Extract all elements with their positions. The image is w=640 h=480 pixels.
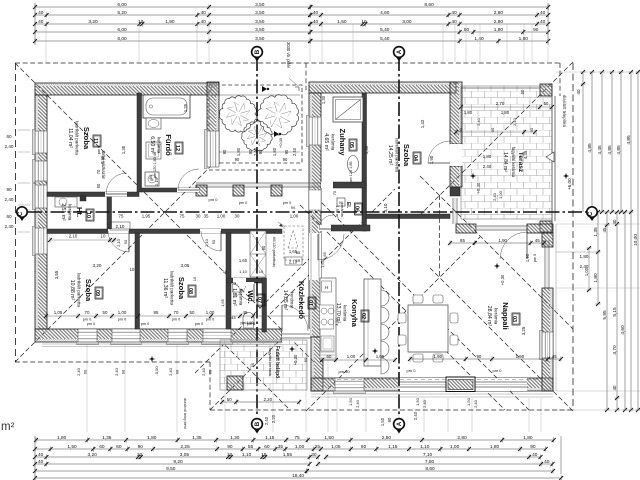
svg-text:A: A <box>396 421 403 426</box>
svg-text:1,60: 1,60 <box>239 258 248 263</box>
svg-text:90: 90 <box>123 239 128 244</box>
svg-text:1,30: 1,30 <box>121 145 126 154</box>
svg-text:1,40: 1,40 <box>474 36 484 42</box>
svg-text:90: 90 <box>361 444 367 450</box>
svg-text:85: 85 <box>460 238 465 243</box>
svg-text:28,84 m²: 28,84 m² <box>486 306 492 327</box>
svg-text:90: 90 <box>211 239 216 244</box>
svg-text:2,40: 2,40 <box>114 367 119 376</box>
svg-text:+0,30: +0,30 <box>293 354 298 365</box>
svg-text:Fürdő: Fürdő <box>164 134 173 156</box>
svg-text:3,70: 3,70 <box>612 345 618 355</box>
svg-text:+6,00: +6,00 <box>567 178 572 190</box>
svg-text:1,00: 1,00 <box>450 444 460 450</box>
svg-text:04: 04 <box>412 155 418 162</box>
svg-text:2,40: 2,40 <box>168 367 173 376</box>
svg-text:50: 50 <box>96 183 101 188</box>
svg-text:1,80: 1,80 <box>57 435 67 441</box>
svg-text:1,65: 1,65 <box>220 298 225 307</box>
svg-text:60: 60 <box>208 369 213 374</box>
svg-text:1,00: 1,00 <box>118 310 127 315</box>
svg-text:4,60: 4,60 <box>620 325 626 335</box>
svg-text:4,85: 4,85 <box>587 143 593 153</box>
svg-text:1,50: 1,50 <box>380 417 385 426</box>
svg-text:4,65 m²: 4,65 m² <box>323 133 329 151</box>
svg-text:5,95: 5,95 <box>602 310 608 320</box>
svg-text:90: 90 <box>235 157 240 162</box>
svg-text:11: 11 <box>92 138 98 144</box>
svg-text:2,50: 2,50 <box>382 435 392 441</box>
svg-text:30: 30 <box>235 214 240 219</box>
svg-text:3,55: 3,55 <box>54 270 59 279</box>
svg-text:1,35: 1,35 <box>102 435 112 441</box>
svg-text:70: 70 <box>96 169 101 174</box>
svg-text:1,15: 1,15 <box>388 444 398 450</box>
svg-text:3,20: 3,20 <box>88 19 98 25</box>
svg-text:50: 50 <box>520 89 525 94</box>
svg-text:3,10: 3,10 <box>383 203 388 212</box>
svg-text:7,10: 7,10 <box>423 452 433 458</box>
svg-text:Nappali: Nappali <box>501 302 510 329</box>
svg-text:4,35: 4,35 <box>523 150 528 159</box>
svg-text:9,50: 9,50 <box>166 466 176 472</box>
svg-text:laminált parketta: laminált parketta <box>395 138 400 172</box>
svg-text:40: 40 <box>612 219 617 224</box>
svg-text:C: C <box>588 211 594 216</box>
svg-text:40: 40 <box>544 459 550 465</box>
svg-text:pm 0: pm 0 <box>533 254 537 262</box>
svg-text:5,40: 5,40 <box>380 27 390 33</box>
svg-text:90: 90 <box>476 354 481 359</box>
svg-text:1,95: 1,95 <box>142 214 151 219</box>
svg-text:45: 45 <box>602 227 607 232</box>
svg-text:12: 12 <box>174 145 180 151</box>
svg-text:C: C <box>18 211 24 216</box>
svg-text:2,40: 2,40 <box>5 144 14 149</box>
svg-text:m²: m² <box>1 421 15 433</box>
svg-text:2,25: 2,25 <box>180 444 190 450</box>
svg-text:1,35: 1,35 <box>183 103 188 112</box>
svg-text:2,10: 2,10 <box>116 224 125 229</box>
svg-text:Szoba: Szoba <box>82 127 91 150</box>
svg-text:4,45: 4,45 <box>597 145 603 155</box>
svg-text:1,80: 1,80 <box>483 154 492 159</box>
svg-text:2,80: 2,80 <box>457 435 467 441</box>
svg-text:8,60: 8,60 <box>424 2 434 8</box>
svg-text:10: 10 <box>227 452 233 458</box>
svg-text:11,36 m²: 11,36 m² <box>162 278 168 298</box>
svg-text:5,40: 5,40 <box>380 36 390 42</box>
svg-text:03: 03 <box>511 316 517 322</box>
svg-text:kerámia: kerámia <box>331 134 336 151</box>
svg-text:10: 10 <box>259 269 264 274</box>
svg-text:pm 90: pm 90 <box>338 369 350 374</box>
svg-text:40: 40 <box>38 452 44 458</box>
svg-text:ladrikált parketta: ladrikált parketta <box>170 271 175 305</box>
svg-text:2,40: 2,40 <box>422 399 427 408</box>
svg-text:40: 40 <box>38 10 44 16</box>
svg-text:1,90: 1,90 <box>498 238 507 243</box>
svg-text:2,40: 2,40 <box>512 117 517 126</box>
svg-text:35: 35 <box>278 444 284 450</box>
svg-text:30: 30 <box>311 452 317 458</box>
svg-text:1,80: 1,80 <box>580 254 589 259</box>
svg-text:fagyálló kerámia: fagyálló kerámia <box>268 348 272 377</box>
svg-text:45: 45 <box>243 310 248 315</box>
svg-text:2,20: 2,20 <box>264 397 273 402</box>
svg-text:10,00: 10,00 <box>633 234 639 246</box>
svg-text:2,51 m²: 2,51 m² <box>60 203 66 221</box>
svg-text:50: 50 <box>227 397 232 402</box>
svg-text:3,50: 3,50 <box>255 36 265 42</box>
svg-text:75: 75 <box>294 435 300 441</box>
svg-text:2,80: 2,80 <box>494 10 504 16</box>
svg-text:11,04 m²: 11,04 m² <box>67 128 73 148</box>
svg-text:pm 0: pm 0 <box>195 322 203 326</box>
svg-text:1,80: 1,80 <box>501 110 510 115</box>
svg-text:4,60: 4,60 <box>380 10 390 16</box>
svg-text:pm 0: pm 0 <box>118 318 126 322</box>
svg-text:1,50: 1,50 <box>466 397 471 406</box>
svg-text:55: 55 <box>248 444 254 450</box>
svg-text:tbrbó gázkazán: tbrbó gázkazán <box>101 151 106 180</box>
svg-text:1,00: 1,00 <box>295 444 305 450</box>
svg-text:1,80: 1,80 <box>147 435 157 441</box>
svg-text:1,90: 1,90 <box>165 19 175 25</box>
svg-text:pm 0: pm 0 <box>83 318 91 322</box>
svg-text:1,81 m²: 1,81 m² <box>231 288 237 306</box>
svg-text:1,80: 1,80 <box>519 36 529 42</box>
svg-text:2,40: 2,40 <box>264 416 269 425</box>
svg-text:kerámia: kerámia <box>340 203 344 217</box>
svg-text:1,65: 1,65 <box>322 251 327 260</box>
svg-text:pm 0: pm 0 <box>141 322 149 326</box>
svg-text:75: 75 <box>119 214 124 219</box>
svg-text:1,00: 1,00 <box>217 214 226 219</box>
svg-text:07: 07 <box>256 297 262 303</box>
svg-text:2,40: 2,40 <box>5 197 14 202</box>
svg-text:50: 50 <box>103 310 108 315</box>
svg-text:Ht.: Ht. <box>75 207 84 217</box>
svg-text:90: 90 <box>222 149 227 154</box>
svg-text:2,40: 2,40 <box>476 117 481 126</box>
svg-text:1,05: 1,05 <box>331 444 341 450</box>
svg-text:90: 90 <box>283 157 288 162</box>
svg-text:pm 0: pm 0 <box>97 146 101 154</box>
svg-text:4,85: 4,85 <box>616 145 622 155</box>
svg-text:Konyha: Konyha <box>350 299 359 328</box>
svg-text:2,40: 2,40 <box>413 411 418 420</box>
svg-text:1,50: 1,50 <box>337 19 347 25</box>
svg-text:2,10: 2,10 <box>204 238 209 247</box>
svg-text:40: 40 <box>313 10 319 16</box>
svg-text:02: 02 <box>360 313 366 319</box>
svg-text:1,00: 1,00 <box>584 267 589 276</box>
svg-text:1,55: 1,55 <box>283 452 293 458</box>
svg-text:50: 50 <box>250 362 255 367</box>
svg-text:40: 40 <box>38 459 44 465</box>
svg-text:18,40: 18,40 <box>292 473 304 479</box>
svg-text:H: H <box>325 285 328 290</box>
svg-text:7,80: 7,80 <box>425 459 435 465</box>
svg-text:1,80: 1,80 <box>236 147 241 156</box>
svg-text:ladrikált parketta: ladrikált parketta <box>75 121 80 155</box>
svg-text:2,10: 2,10 <box>116 238 121 247</box>
svg-text:kerámia: kerámia <box>343 305 348 322</box>
svg-text:14,84 m²: 14,84 m² <box>502 152 508 172</box>
svg-text:90: 90 <box>529 127 534 132</box>
svg-text:90: 90 <box>121 369 126 374</box>
svg-text:2,40: 2,40 <box>483 164 492 169</box>
svg-text:1,10: 1,10 <box>239 269 248 274</box>
svg-text:10: 10 <box>85 212 91 218</box>
svg-text:3,50: 3,50 <box>255 10 265 16</box>
svg-text:3030 vb. pillér: 3030 vb. pillér <box>286 42 291 69</box>
svg-text:pm 120 1,60 40: pm 120 1,60 40 <box>153 152 157 178</box>
svg-text:+0,00: +0,00 <box>278 137 283 148</box>
svg-text:45: 45 <box>552 354 557 359</box>
svg-text:2,10: 2,10 <box>69 234 78 239</box>
svg-text:1,10: 1,10 <box>420 444 430 450</box>
svg-text:90: 90 <box>458 127 463 132</box>
svg-text:2,40: 2,40 <box>201 367 206 376</box>
svg-text:40: 40 <box>451 19 457 25</box>
svg-text:40: 40 <box>540 10 546 16</box>
svg-text:1,65: 1,65 <box>320 259 325 268</box>
svg-text:pm 0: pm 0 <box>283 201 291 205</box>
svg-text:2,40: 2,40 <box>473 399 478 408</box>
svg-text:35: 35 <box>204 214 209 219</box>
svg-text:3,50: 3,50 <box>255 2 265 8</box>
svg-text:1,80: 1,80 <box>494 27 504 33</box>
svg-text:El.: El. <box>345 202 351 209</box>
svg-text:90: 90 <box>6 187 12 192</box>
svg-text:1,42: 1,42 <box>420 119 425 128</box>
svg-text:Szoba: Szoba <box>177 277 186 300</box>
svg-text:1,65: 1,65 <box>289 249 298 254</box>
svg-text:50: 50 <box>190 310 195 315</box>
svg-text:1,00: 1,00 <box>498 190 503 199</box>
svg-text:1,80: 1,80 <box>593 273 599 283</box>
svg-text:2,20: 2,20 <box>271 414 276 423</box>
svg-text:kerámia: kerámia <box>239 289 244 306</box>
svg-text:40: 40 <box>540 19 546 25</box>
svg-text:14,25 m²: 14,25 m² <box>387 145 393 166</box>
svg-text:13,70 m²: 13,70 m² <box>335 303 341 324</box>
svg-text:9,20: 9,20 <box>173 459 183 465</box>
svg-text:Zuhany: Zuhany <box>338 128 347 156</box>
svg-text:90: 90 <box>258 149 263 154</box>
svg-text:75: 75 <box>332 190 337 195</box>
svg-text:3,20: 3,20 <box>88 452 98 458</box>
svg-text:2,40: 2,40 <box>492 192 497 201</box>
svg-text:60: 60 <box>99 444 105 450</box>
svg-text:70: 70 <box>174 310 179 315</box>
svg-text:3,05: 3,05 <box>181 263 190 268</box>
svg-text:70: 70 <box>85 310 90 315</box>
svg-text:60: 60 <box>327 354 332 359</box>
svg-text:2,10: 2,10 <box>289 260 298 265</box>
svg-text:pm 0: pm 0 <box>172 318 180 322</box>
svg-text:3,00: 3,00 <box>402 19 412 25</box>
svg-text:40: 40 <box>612 385 617 390</box>
svg-text:60: 60 <box>303 357 308 362</box>
svg-text:1,98 m²: 1,98 m² <box>335 206 339 220</box>
svg-text:fagyálló kerámia: fagyálló kerámia <box>511 147 516 178</box>
svg-text:30: 30 <box>196 214 201 219</box>
svg-text:1,90: 1,90 <box>525 253 530 262</box>
svg-text:1,30: 1,30 <box>364 145 369 154</box>
svg-text:50: 50 <box>464 27 470 33</box>
svg-text:+0,30: +0,30 <box>500 274 505 285</box>
svg-text:6,00: 6,00 <box>117 2 127 8</box>
svg-text:2,70: 2,70 <box>496 101 505 106</box>
svg-text:Közlekedő: Közlekedő <box>297 281 306 319</box>
svg-text:06: 06 <box>354 206 360 212</box>
svg-text:10: 10 <box>130 267 135 272</box>
svg-text:1,30: 1,30 <box>230 435 240 441</box>
svg-text:90: 90 <box>138 444 144 450</box>
svg-text:1,50: 1,50 <box>415 397 420 406</box>
svg-text:08: 08 <box>187 288 193 294</box>
svg-text:8,60: 8,60 <box>425 466 435 472</box>
svg-text:5,15: 5,15 <box>612 307 618 317</box>
svg-text:1,35: 1,35 <box>192 435 202 441</box>
svg-text:1,50: 1,50 <box>348 397 353 406</box>
svg-text:90: 90 <box>175 369 180 374</box>
svg-text:pm 120 1,85: pm 120 1,85 <box>349 161 353 182</box>
svg-text:09: 09 <box>94 290 100 296</box>
svg-text:2,40: 2,40 <box>76 367 81 376</box>
svg-text:3,20: 3,20 <box>93 263 102 268</box>
svg-text:05: 05 <box>348 142 354 148</box>
svg-text:1,80: 1,80 <box>490 444 500 450</box>
svg-text:diasitott telepítési: diasitott telepítési <box>562 95 567 127</box>
svg-text:pm 0: pm 0 <box>209 197 219 202</box>
svg-text:4,85: 4,85 <box>607 145 613 155</box>
svg-text:90: 90 <box>387 417 392 422</box>
svg-text:1,50: 1,50 <box>67 444 77 450</box>
svg-text:kerámia: kerámia <box>494 308 499 325</box>
svg-text:40: 40 <box>38 19 44 25</box>
svg-text:40: 40 <box>201 10 207 16</box>
svg-text:1,90: 1,90 <box>434 354 443 359</box>
svg-text:45: 45 <box>535 238 540 243</box>
svg-text:ladrikált parketta: ladrikált parketta <box>77 273 82 307</box>
svg-text:6,00: 6,00 <box>117 27 127 33</box>
svg-text:01: 01 <box>307 300 313 306</box>
svg-text:10: 10 <box>361 19 367 25</box>
svg-text:1,80: 1,80 <box>523 435 533 441</box>
svg-text:A: A <box>396 49 403 54</box>
svg-text:90: 90 <box>291 206 295 210</box>
svg-text:1,80: 1,80 <box>272 147 277 156</box>
svg-text:45: 45 <box>231 315 236 320</box>
svg-text:90: 90 <box>148 174 153 179</box>
svg-text:2,40: 2,40 <box>355 399 360 408</box>
svg-text:pm 0: pm 0 <box>87 322 95 326</box>
svg-text:1,05: 1,05 <box>376 354 385 359</box>
svg-text:2,10: 2,10 <box>154 177 159 186</box>
svg-text:pm 0: pm 0 <box>493 368 503 373</box>
svg-text:40: 40 <box>576 89 581 95</box>
svg-text:3,50: 3,50 <box>255 19 265 25</box>
svg-text:pm 0: pm 0 <box>239 201 247 205</box>
svg-text:10: 10 <box>223 269 228 274</box>
svg-text:pm 0: pm 0 <box>247 322 255 326</box>
svg-text:2,40: 2,40 <box>5 224 14 229</box>
svg-text:1,35: 1,35 <box>593 227 599 237</box>
svg-text:40: 40 <box>532 452 538 458</box>
svg-text:50: 50 <box>544 101 549 106</box>
svg-text:1,30: 1,30 <box>100 155 105 164</box>
svg-text:1,90: 1,90 <box>516 354 525 359</box>
svg-text:40: 40 <box>313 19 319 25</box>
svg-text:10: 10 <box>261 452 267 458</box>
svg-text:1,90: 1,90 <box>429 155 434 164</box>
svg-text:1,00: 1,00 <box>290 214 299 219</box>
svg-text:75: 75 <box>180 214 185 219</box>
svg-text:25: 25 <box>315 444 321 450</box>
svg-text:90: 90 <box>490 127 495 132</box>
svg-text:14,85 m²: 14,85 m² <box>282 290 288 311</box>
svg-text:5,20: 5,20 <box>117 10 127 16</box>
svg-text:6,00: 6,00 <box>117 36 127 42</box>
svg-text:3,50: 3,50 <box>255 27 265 33</box>
svg-text:kerámia: kerámia <box>157 137 162 154</box>
svg-text:1,10: 1,10 <box>242 452 252 458</box>
svg-text:90: 90 <box>533 27 539 33</box>
svg-text:kerdmar: kerdmar <box>290 292 295 309</box>
svg-text:10: 10 <box>192 276 197 281</box>
svg-text:+0,30: +0,30 <box>476 182 481 193</box>
svg-text:Szoba: Szoba <box>84 279 93 302</box>
svg-text:10: 10 <box>137 452 143 458</box>
svg-text:Szoba: Szoba <box>402 144 411 167</box>
svg-text:pm 0: pm 0 <box>206 318 214 322</box>
svg-text:4,85: 4,85 <box>626 135 632 145</box>
svg-text:1,05: 1,05 <box>54 310 63 315</box>
svg-text:95: 95 <box>154 310 159 315</box>
svg-text:1,00: 1,00 <box>206 310 215 315</box>
svg-text:10: 10 <box>101 234 106 239</box>
svg-text:60: 60 <box>116 444 122 450</box>
svg-text:kerámia: kerámia <box>68 204 73 221</box>
svg-text:3,05: 3,05 <box>180 452 190 458</box>
svg-text:60/120 parkettsáv: 60/120 parkettsáv <box>272 237 276 267</box>
svg-text:1,50: 1,50 <box>324 435 334 441</box>
svg-text:40: 40 <box>451 10 457 16</box>
svg-text:pm 0: pm 0 <box>407 368 417 373</box>
svg-text:60: 60 <box>264 444 270 450</box>
svg-text:60: 60 <box>6 134 12 139</box>
svg-text:2,40: 2,40 <box>292 147 297 156</box>
svg-text:1,15: 1,15 <box>265 435 275 441</box>
svg-text:Wc.: Wc. <box>246 290 255 304</box>
svg-text:6,50 m²: 6,50 m² <box>149 136 155 154</box>
svg-text:90: 90 <box>261 245 266 250</box>
svg-text:B: B <box>254 49 261 54</box>
svg-text:40: 40 <box>201 19 207 25</box>
svg-text:60: 60 <box>83 369 88 374</box>
svg-text:90: 90 <box>284 149 289 154</box>
svg-text:1,80: 1,80 <box>464 110 473 115</box>
svg-text:2,80: 2,80 <box>494 19 504 25</box>
svg-text:1,30: 1,30 <box>321 95 326 104</box>
svg-text:B: B <box>254 421 261 426</box>
svg-text:60: 60 <box>6 214 12 219</box>
svg-text:90: 90 <box>530 444 536 450</box>
